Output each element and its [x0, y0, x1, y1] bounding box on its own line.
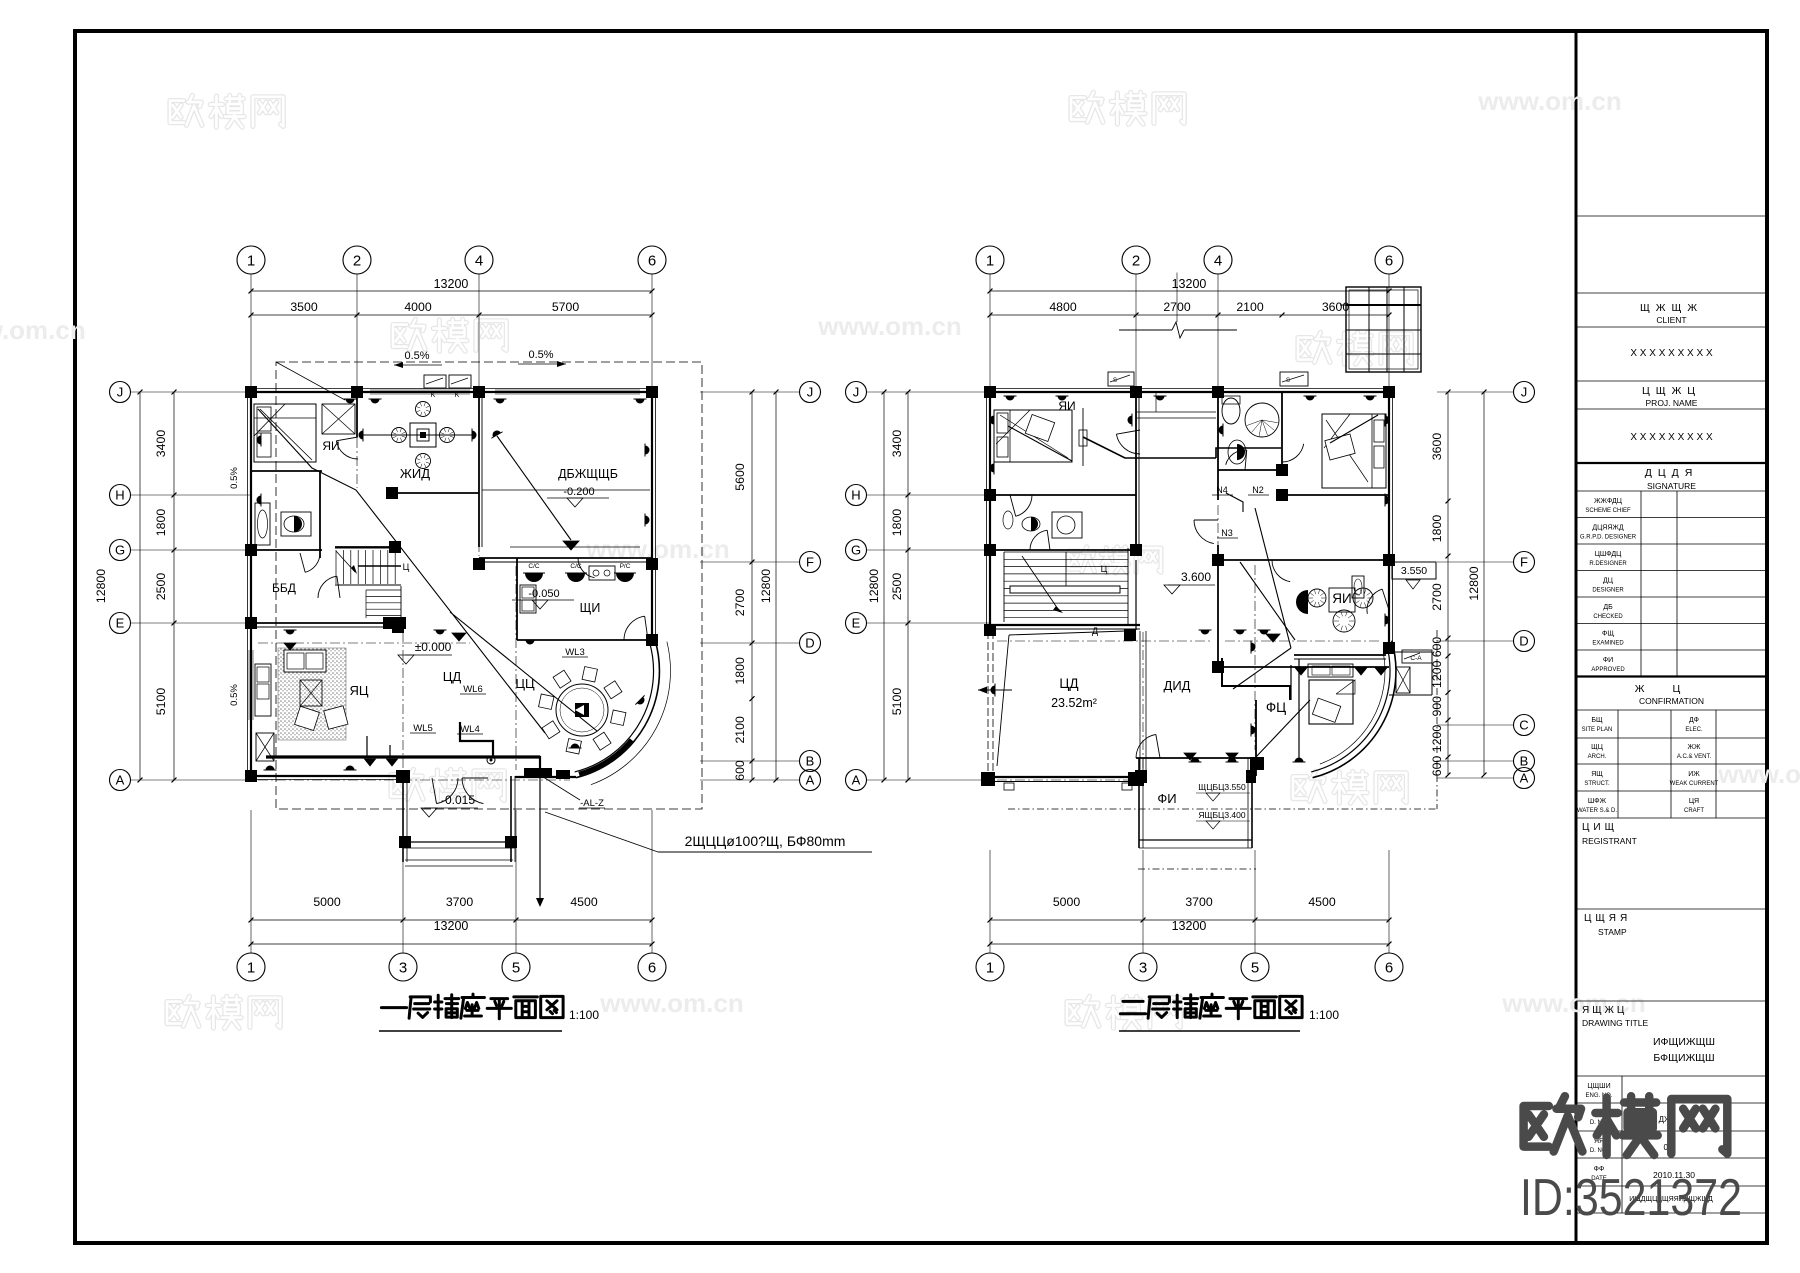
plan2 level 3.550 box [1392, 562, 1436, 579]
light watermarks [170, 95, 283, 127]
grid bubble E [110, 613, 131, 634]
svg-text:3400: 3400 [890, 430, 904, 458]
plan2 bottom wall and balcony doors [1136, 757, 1256, 759]
svg-text:4: 4 [1214, 252, 1222, 269]
svg-text:6: 6 [648, 252, 656, 269]
svg-text:E: E [116, 616, 125, 631]
plan1 columns [245, 386, 257, 398]
plan2 interior walls [990, 494, 1136, 496]
grid bubble J [846, 382, 867, 403]
svg-text:ДЦЯЯЖД: ДЦЯЯЖД [1592, 525, 1623, 532]
plan1 doors [336, 441, 358, 459]
svg-text:ШФЖ: ШФЖ [1588, 798, 1607, 805]
grid bubble C [1514, 715, 1535, 736]
plan2 top-right bed [1322, 414, 1386, 488]
svg-text:4500: 4500 [570, 895, 598, 909]
svg-text:3.600: 3.600 [1181, 570, 1211, 584]
svg-text:J: J [1521, 385, 1528, 400]
svg-text:3700: 3700 [446, 895, 474, 909]
svg-text:ЦЩШИ: ЦЩШИ [1587, 1083, 1610, 1090]
svg-text:DESIGNER: DESIGNER [1592, 588, 1624, 594]
svg-text:1800: 1800 [1430, 515, 1444, 543]
svg-text:2ЩЦЦø100?Щ, БФ80mm: 2ЩЦЦø100?Щ, БФ80mm [685, 833, 846, 849]
svg-text:ЯЩЖЦ: ЯЩЖЦ [1582, 1005, 1627, 1016]
grid bubble 1 [237, 953, 265, 981]
svg-text:Ц: Ц [403, 562, 410, 572]
svg-text:ФЦ: ФЦ [1266, 700, 1286, 715]
svg-text:S: S [1113, 378, 1117, 384]
svg-text:3700: 3700 [1185, 895, 1213, 909]
svg-text:Д: Д [1092, 626, 1098, 636]
svg-text:1800: 1800 [890, 509, 904, 537]
svg-text:B: B [806, 754, 815, 769]
svg-text:БФЩИЖЩШ: БФЩИЖЩШ [1653, 1052, 1714, 1064]
svg-text:F: F [806, 555, 814, 570]
plan2 skylight grid [1346, 287, 1421, 372]
svg-text:STAMP: STAMP [1598, 927, 1627, 937]
svg-text:A: A [806, 773, 815, 788]
svg-text:2: 2 [1132, 252, 1140, 269]
svg-text:A: A [116, 773, 125, 788]
svg-text:2700: 2700 [733, 589, 747, 617]
svg-text:N2: N2 [1252, 485, 1264, 495]
svg-text:PROJ. NAME: PROJ. NAME [1646, 398, 1698, 408]
svg-text:0.5%: 0.5% [404, 350, 429, 362]
svg-text:3.550: 3.550 [1401, 565, 1427, 577]
svg-text:ДЦ: ДЦ [1603, 578, 1614, 585]
grid bubble 3 [1129, 953, 1157, 981]
svg-text:WL3: WL3 [565, 647, 585, 658]
plan1 interior grid dashdot lines [356, 402, 358, 488]
svg-text:13200: 13200 [1172, 919, 1207, 933]
grid bubble 4 [465, 246, 493, 274]
grid bubble F [800, 552, 821, 573]
plan1 kitchen level [512, 599, 574, 601]
svg-text:X X X X X X X X X: X X X X X X X X X [1630, 348, 1713, 359]
title block: signature rows [1640, 491, 1642, 677]
plan1 mahjong table [410, 423, 436, 447]
svg-text:ДЦДЯ: ДЦДЯ [1645, 467, 1699, 479]
grid bubble A [110, 770, 131, 791]
svg-text:ЖЖ: ЖЖ [1688, 744, 1701, 751]
plan2 void trapezoid [1009, 631, 1126, 635]
svg-text:ДБЖЩЩБ: ДБЖЩЩБ [558, 467, 618, 481]
plan1 misc symbol boxes [256, 733, 274, 761]
svg-text:K: K [455, 392, 460, 399]
svg-text:23.52m²: 23.52m² [1051, 696, 1097, 710]
plan1 curved wall [576, 641, 659, 778]
grid bubble 2 [343, 246, 371, 274]
plan2 guest room fan [1082, 408, 1084, 466]
svg-text:-0.050: -0.050 [528, 588, 559, 600]
grid bubble H [846, 485, 867, 506]
svg-text:5: 5 [512, 959, 520, 976]
plan1 curved hatch band [579, 740, 632, 774]
svg-text:13200: 13200 [434, 919, 469, 933]
svg-text:G.R.P.D. DESIGNER: G.R.P.D. DESIGNER [1580, 535, 1637, 541]
svg-text:ФИ: ФИ [1157, 791, 1176, 806]
plan2 interior grid dashdot lines [1135, 398, 1137, 548]
svg-text:4: 4 [475, 252, 483, 269]
svg-text:0.5%: 0.5% [229, 684, 240, 706]
svg-text:3600: 3600 [1322, 300, 1350, 314]
svg-text:WEAK CURRENT: WEAK CURRENT [1670, 781, 1719, 787]
svg-text:ЩЦ: ЩЦ [1591, 744, 1604, 751]
svg-text:ЦЩЖЦ: ЦЩЖЦ [1642, 385, 1701, 397]
plan1 exterior walls [251, 391, 652, 393]
svg-text:2100: 2100 [733, 716, 747, 744]
svg-text:S: S [1286, 378, 1290, 384]
svg-text:-0.200: -0.200 [563, 486, 594, 498]
plan1 stair lower flight [366, 589, 401, 591]
svg-text:ФЩ: ФЩ [1602, 631, 1614, 638]
svg-text:www.om.cn: www.om.cn [817, 311, 962, 341]
svg-text:5600: 5600 [733, 463, 747, 491]
svg-text:P/C: P/C [620, 563, 631, 570]
plan1 right dimensions [751, 392, 753, 780]
svg-text:www.om.cn: www.om.cn [599, 988, 744, 1018]
svg-text:STRUCT.: STRUCT. [1584, 781, 1610, 787]
svg-text:5000: 5000 [1053, 895, 1081, 909]
svg-text:±0.000: ±0.000 [415, 640, 452, 654]
svg-text:13200: 13200 [434, 277, 469, 291]
svg-text:WL6: WL6 [463, 684, 483, 695]
plan1 K-K section marks [424, 375, 446, 388]
svg-text:6: 6 [1385, 959, 1393, 976]
plan2 roof eave break [1119, 329, 1172, 331]
svg-text:B: B [1520, 754, 1529, 769]
grid bubble F [1514, 552, 1535, 573]
plan1 wires [258, 409, 545, 733]
svg-text:A.C.& VENT.: A.C.& VENT. [1677, 754, 1712, 760]
svg-text:ДИД: ДИД [1164, 678, 1191, 693]
svg-text:ЯЩБЦ3.400: ЯЩБЦ3.400 [1198, 810, 1246, 820]
svg-text:ЦШФДЦ: ЦШФДЦ [1595, 551, 1622, 558]
svg-text:D: D [1519, 634, 1528, 649]
svg-text:REGISTRANT: REGISTRANT [1582, 836, 1637, 846]
svg-text:12800: 12800 [1467, 566, 1481, 600]
svg-text:2500: 2500 [154, 573, 168, 601]
svg-text:C/C: C/C [528, 563, 540, 570]
svg-text:N3: N3 [1221, 528, 1233, 538]
grid bubble 6 [1375, 953, 1403, 981]
plan1 window lines top [370, 389, 470, 391]
svg-text:БЩ: БЩ [1591, 717, 1603, 724]
svg-text:ФИ: ФИ [1603, 657, 1613, 664]
plan1 garage mezzanine edge [482, 489, 650, 491]
plan2 hallway rail [1136, 411, 1216, 413]
svg-text:3600: 3600 [1430, 433, 1444, 461]
svg-text:J: J [853, 385, 860, 400]
plan2 doors [1116, 434, 1140, 454]
svg-text:ARCH.: ARCH. [1588, 754, 1607, 760]
svg-text:C: C [1519, 718, 1528, 733]
svg-text:1: 1 [247, 959, 255, 976]
plan1 kitchen door [624, 616, 645, 640]
svg-text:4500: 4500 [1308, 895, 1336, 909]
svg-text:ИФЩИЖЩШ: ИФЩИЖЩШ [1653, 1036, 1715, 1048]
plan2 bottom-left wall [987, 776, 1145, 778]
grid bubble J [800, 382, 821, 403]
svg-text:ЯЦ: ЯЦ [349, 683, 368, 698]
svg-text:D: D [805, 636, 814, 651]
plan2 title [1120, 994, 1302, 1019]
plan2 stairs bottom wall [990, 624, 1140, 626]
plan1 guest room wardrobe [322, 404, 355, 434]
plan1 bathroom fixtures [255, 503, 270, 545]
svg-text:ЯЩ: ЯЩ [1591, 771, 1603, 778]
plan1 porch [402, 776, 404, 862]
svg-text:ID:3521372: ID:3521372 [1520, 1169, 1742, 1227]
plan2 curved balcony wall [1313, 641, 1396, 778]
svg-text:X X X X X X X X X: X X X X X X X X X [1630, 432, 1713, 443]
plan2 bottom dimensions [990, 919, 1389, 921]
svg-text:H: H [115, 488, 124, 503]
svg-text:www.om.cn: www.om.cn [1717, 759, 1800, 789]
grid bubble 2 [1122, 246, 1150, 274]
svg-text:1800: 1800 [154, 509, 168, 537]
svg-text:ЖЖФДЦ: ЖЖФДЦ [1594, 498, 1623, 505]
svg-text:H: H [851, 488, 860, 503]
svg-text:12800: 12800 [867, 569, 881, 603]
big gray watermark [1524, 1096, 1728, 1155]
svg-text:5000: 5000 [313, 895, 341, 909]
svg-text:4800: 4800 [1049, 300, 1077, 314]
grid bubble H [110, 485, 131, 506]
svg-text:ЩИ: ЩИ [580, 601, 601, 615]
plan1 mahjong room centre wire [363, 434, 472, 436]
grid bubble 3 [389, 953, 417, 981]
plan2 C-A label box [1402, 650, 1432, 663]
plan2 wires [1008, 426, 1072, 461]
plan1 sockets [344, 399, 357, 404]
svg-text:1:100: 1:100 [569, 1008, 599, 1022]
grid bubble B [1514, 751, 1535, 772]
plan1 porch doors [437, 778, 459, 804]
svg-text:5100: 5100 [154, 688, 168, 716]
svg-text:WATER S.& D.: WATER S.& D. [1577, 808, 1617, 814]
svg-text:ИЖ: ИЖ [1688, 771, 1700, 778]
plan2 bay window right [1389, 651, 1432, 653]
svg-text:12800: 12800 [759, 569, 773, 603]
svg-text:5100: 5100 [890, 688, 904, 716]
plan1 garage door opening [510, 546, 640, 548]
svg-text:2700: 2700 [1430, 583, 1444, 611]
grid bubble 4 [1204, 246, 1232, 274]
svg-text:3500: 3500 [290, 300, 318, 314]
svg-text:SCHEME CHIEF: SCHEME CHIEF [1585, 508, 1631, 514]
svg-text:A: A [1520, 771, 1529, 786]
svg-text:www.om.cn: www.om.cn [1477, 86, 1622, 116]
grid bubble 6 [638, 953, 666, 981]
grid bubble D [800, 633, 821, 654]
svg-text:1: 1 [986, 252, 994, 269]
svg-text:3: 3 [399, 959, 407, 976]
svg-text:ЯИ: ЯИ [1058, 399, 1075, 413]
plan1 title [381, 994, 563, 1019]
plan2 dashed overhang [1008, 808, 1437, 810]
svg-text:-AL-Z: -AL-Z [580, 798, 604, 809]
plan2 left dimensions [907, 392, 909, 780]
plan2 section marks [1108, 372, 1134, 386]
svg-text:K: K [431, 392, 436, 399]
svg-text:CRAFT: CRAFT [1684, 808, 1704, 814]
plan2 guest room bed [994, 410, 1072, 462]
grid bubble A [800, 770, 821, 791]
plan2 desk lamp box [1352, 576, 1364, 598]
svg-text:A: A [852, 773, 861, 788]
svg-text:EXAMINED: EXAMINED [1592, 641, 1624, 647]
svg-text:ЦЩЯЯ: ЦЩЯЯ [1584, 913, 1631, 924]
plan1 dining table [556, 684, 608, 736]
svg-text:0.5%: 0.5% [229, 467, 240, 489]
svg-text:F: F [1520, 555, 1528, 570]
svg-text:ДФ: ДФ [1689, 717, 1699, 724]
svg-text:ELEC.: ELEC. [1685, 727, 1703, 733]
svg-text:SITE PLAN: SITE PLAN [1582, 727, 1613, 733]
svg-text:G: G [115, 543, 125, 558]
svg-text:ЯИ: ЯИ [1332, 591, 1351, 606]
svg-text:ББД: ББД [272, 581, 296, 595]
plan1 window lines left [248, 650, 250, 720]
svg-text:3400: 3400 [154, 430, 168, 458]
svg-text:ЩЖЩЖ: ЩЖЩЖ [1640, 302, 1703, 314]
svg-text:ЦД: ЦД [443, 669, 462, 684]
plan2 balcony [1138, 758, 1140, 848]
svg-text:1:100: 1:100 [1309, 1008, 1339, 1022]
plan2 right dimensions [1447, 392, 1449, 775]
svg-text:4000: 4000 [404, 300, 432, 314]
svg-text:600: 600 [733, 760, 747, 781]
svg-text:C-A: C-A [1410, 655, 1422, 662]
svg-text:ЩЦБЦ3.550: ЩЦБЦ3.550 [1198, 782, 1246, 792]
svg-text:J: J [807, 385, 814, 400]
plan1 stairs [335, 550, 337, 584]
plan2 sockets [1004, 396, 1017, 401]
svg-text:ЦЯ: ЦЯ [1689, 798, 1699, 805]
plan2 exterior walls [990, 391, 1389, 393]
plan1 left dimensions [173, 392, 175, 780]
grid bubble E [846, 613, 867, 634]
grid bubble 1 [976, 246, 1004, 274]
svg-text:-0.015: -0.015 [441, 793, 475, 807]
plan2 ent/bedroom divider [1294, 654, 1386, 656]
svg-text:DRAWING TITLE: DRAWING TITLE [1582, 1018, 1648, 1028]
svg-text:E: E [852, 616, 861, 631]
svg-text:R.DESIGNER: R.DESIGNER [1589, 561, 1627, 567]
grid bubble J [110, 382, 131, 403]
grid bubble D [1514, 631, 1535, 652]
svg-text:CONFIRMATION: CONFIRMATION [1639, 696, 1704, 706]
svg-text:1: 1 [986, 959, 994, 976]
plan1 kitchen fixtures [525, 573, 543, 582]
plan1 garage wire [497, 436, 571, 540]
plan2 bathroom fixtures [1222, 398, 1240, 424]
svg-text:ЦД: ЦД [1059, 676, 1078, 691]
grid bubble A [1514, 768, 1535, 789]
svg-text:J: J [117, 385, 124, 400]
grid bubble 1 [976, 953, 1004, 981]
grid bubble 6 [1375, 246, 1403, 274]
svg-text:2500: 2500 [890, 573, 904, 601]
grid bubble G [110, 540, 131, 561]
svg-text:ЖИД: ЖИД [400, 466, 430, 481]
plan1 roof overhang dashed outline [276, 362, 702, 809]
plan1 bottom dimensions [251, 919, 652, 921]
plan1 living room rug + sofa [278, 648, 346, 740]
svg-text:0.5%: 0.5% [528, 349, 553, 361]
plan2 columns [984, 386, 996, 398]
plan2 stairs [1004, 551, 1128, 553]
svg-text:WL4: WL4 [460, 724, 480, 735]
svg-text:Ц: Ц [1101, 564, 1108, 574]
title block: bottom rows [1621, 1076, 1623, 1213]
svg-text:2: 2 [353, 252, 361, 269]
svg-text:2100: 2100 [1236, 300, 1264, 314]
svg-text:CHECKED: CHECKED [1593, 614, 1623, 620]
svg-text:SIGNATURE: SIGNATURE [1647, 481, 1696, 491]
svg-text:CLIENT: CLIENT [1656, 315, 1686, 325]
grid bubble B [800, 751, 821, 772]
svg-text:1800: 1800 [733, 657, 747, 685]
svg-text:1: 1 [247, 252, 255, 269]
title block divider line [1575, 31, 1578, 1243]
grid bubble 5 [502, 953, 530, 981]
grid bubble A [846, 770, 867, 791]
grid bubble 1 [237, 246, 265, 274]
svg-text:6: 6 [1385, 252, 1393, 269]
svg-text:5700: 5700 [552, 300, 580, 314]
plan1 interior walls [356, 392, 358, 437]
grid bubble G [846, 540, 867, 561]
grid bubble 6 [638, 246, 666, 274]
svg-text:ДБ: ДБ [1603, 604, 1613, 611]
svg-text:12800: 12800 [94, 569, 108, 603]
svg-text:www.om.cn: www.om.cn [0, 315, 86, 345]
svg-text:G: G [851, 543, 861, 558]
svg-text:ЖЦ: ЖЦ [1635, 683, 1708, 695]
svg-text:WL5: WL5 [413, 723, 433, 734]
svg-text:3: 3 [1139, 959, 1147, 976]
grid bubble 5 [1241, 953, 1269, 981]
grid bubble J [1514, 382, 1535, 403]
plan2 bath doors [1226, 450, 1247, 465]
svg-text:ЦИЩ: ЦИЩ [1582, 822, 1618, 833]
svg-text:5: 5 [1251, 959, 1259, 976]
plan1 garage level [547, 497, 609, 499]
svg-text:6: 6 [648, 959, 656, 976]
svg-text:APPROVED: APPROVED [1591, 667, 1625, 673]
plan1 guest room bed [254, 404, 316, 462]
plan2 bath2 fixtures [1022, 517, 1040, 531]
